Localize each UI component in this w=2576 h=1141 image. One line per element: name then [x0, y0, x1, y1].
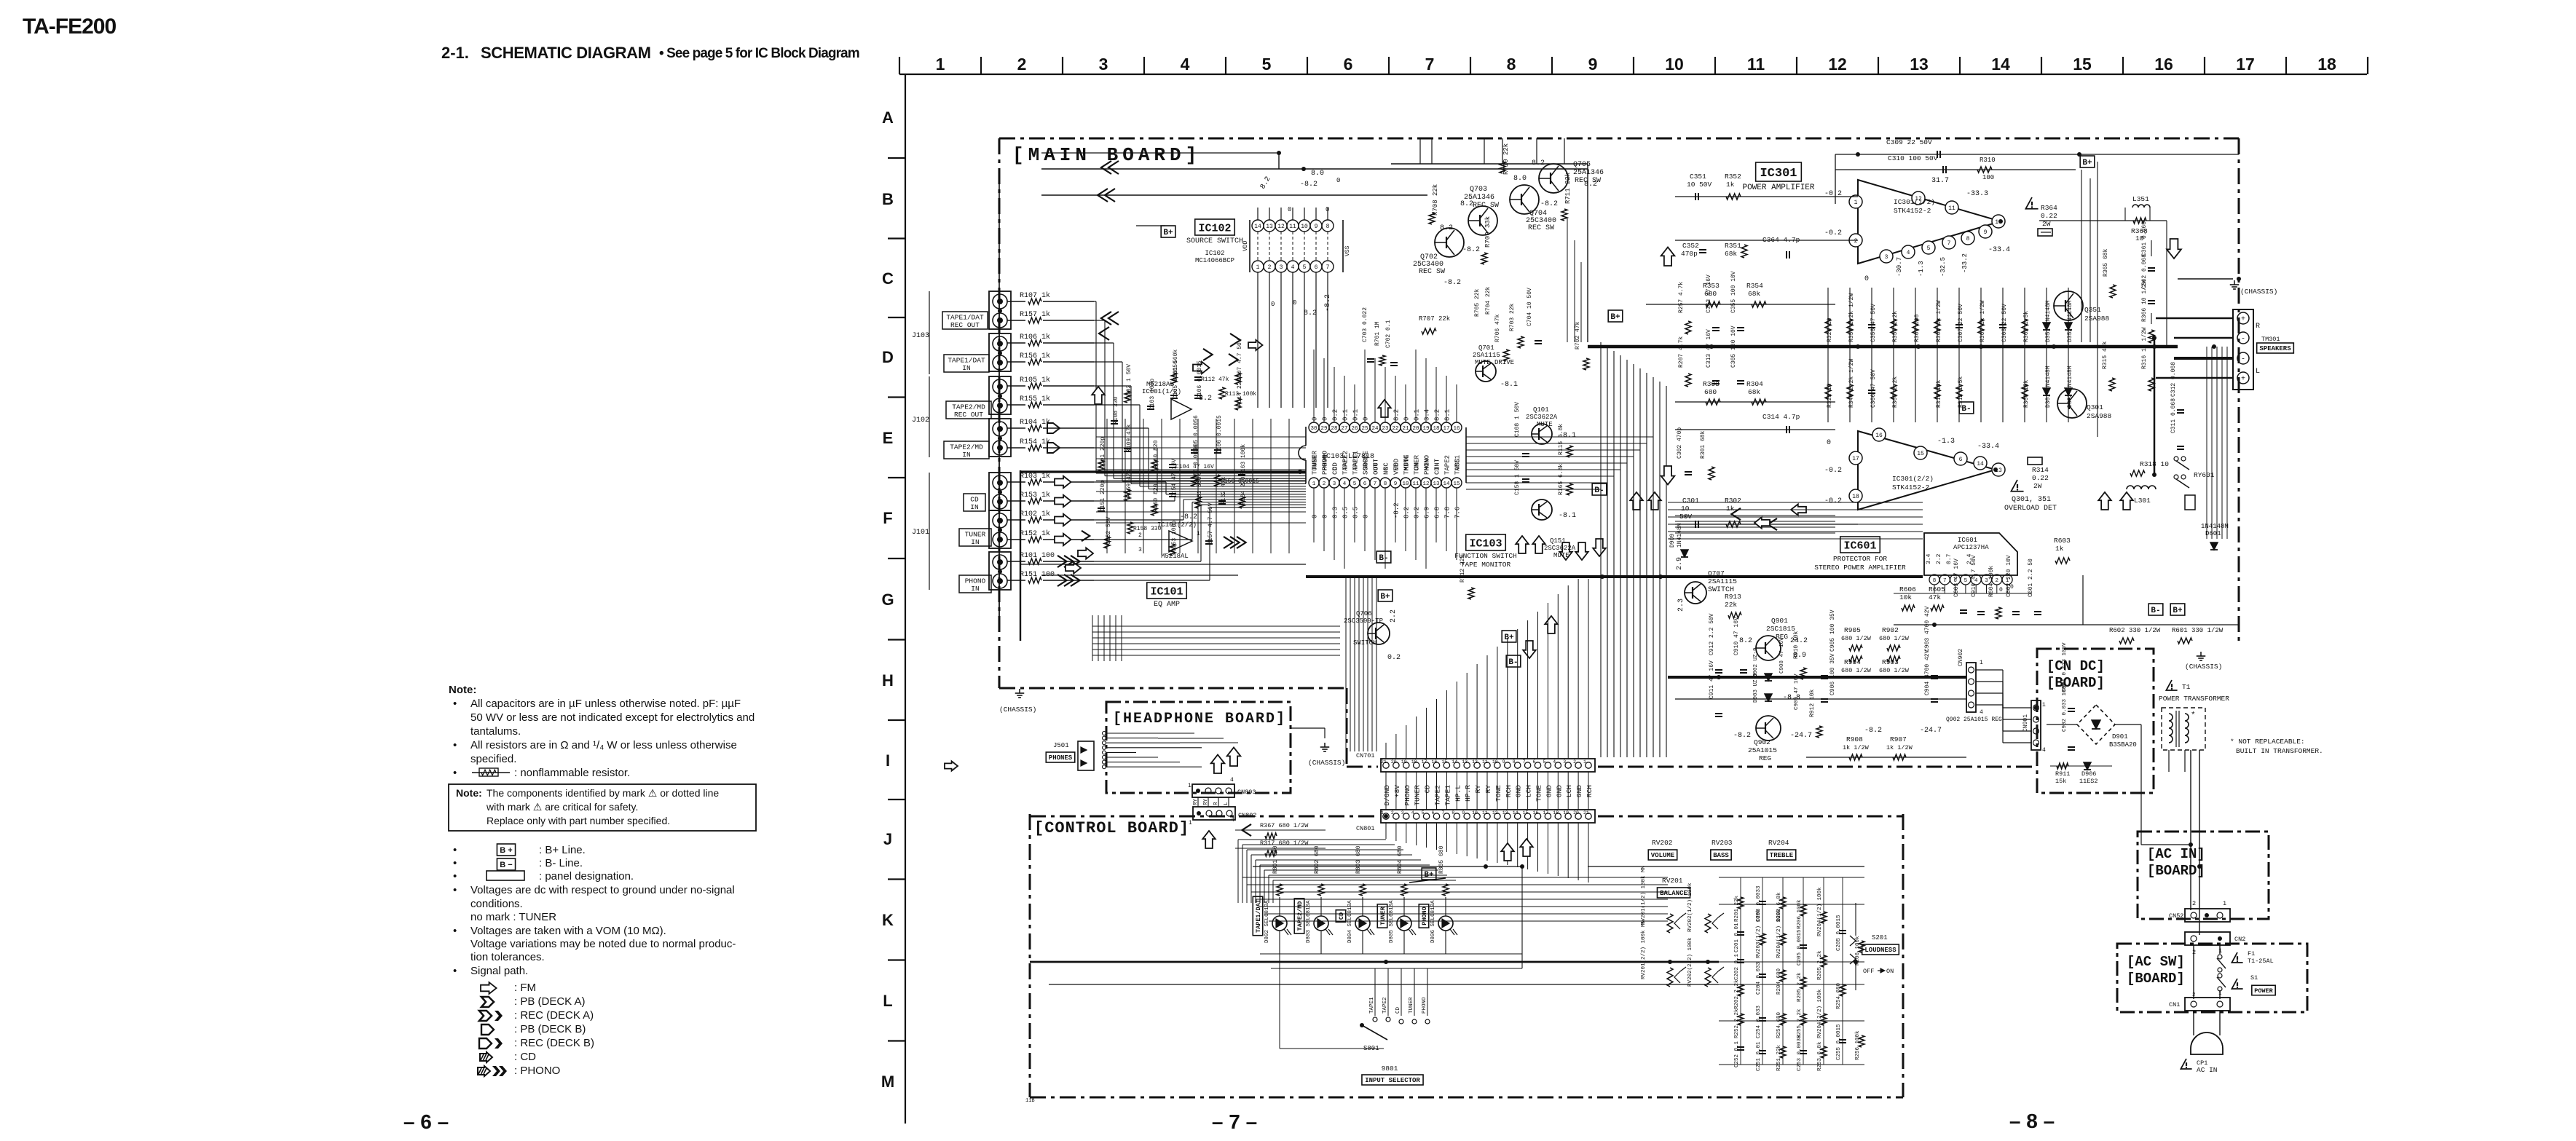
svg-text:VDD: VDD	[1242, 240, 1249, 251]
svg-text:: PB (DECK B): : PB (DECK B)	[514, 1023, 586, 1035]
svg-text:10: 10	[1301, 224, 1308, 230]
svg-text:R711 22k: R711 22k	[1564, 173, 1572, 204]
svg-text:15k: 15k	[2055, 778, 2066, 785]
svg-text:CD: CD	[1338, 912, 1345, 920]
svg-text:PHONO: PHONO	[1421, 907, 1428, 925]
svg-text:C305 100 10V: C305 100 10V	[1730, 325, 1737, 368]
svg-text:9: 9	[1588, 55, 1598, 74]
svg-text:CD: CD	[1332, 467, 1339, 475]
svg-text:TAPE2/MD: TAPE2/MD	[950, 443, 983, 451]
svg-text:no mark : TUNER: no mark : TUNER	[470, 911, 556, 923]
svg-text:RY: RY	[1474, 785, 1482, 794]
svg-text:TAPE1/DAT: TAPE1/DAT	[946, 314, 984, 322]
svg-text:19: 19	[1401, 759, 1407, 765]
svg-text:R165 6.8k: R165 6.8k	[1558, 464, 1564, 495]
svg-text:15: 15	[1917, 451, 1924, 457]
svg-text:R701 1M: R701 1M	[1374, 321, 1381, 346]
svg-text:0: 0	[1336, 177, 1340, 184]
svg-text:1: 1	[936, 55, 945, 74]
svg-text:18: 18	[2317, 55, 2336, 74]
svg-text:: CD: : CD	[514, 1051, 536, 1063]
svg-text:NC: NC	[1383, 467, 1390, 475]
svg-text:C252 0.1: C252 0.1	[1734, 1041, 1740, 1067]
svg-text:R154 1k: R154 1k	[1020, 438, 1050, 446]
svg-text:R108 330: R108 330	[1113, 396, 1119, 425]
svg-text:18: 18	[1411, 759, 1417, 765]
svg-text:R908: R908	[1846, 735, 1863, 743]
svg-text:B +: B +	[500, 846, 512, 855]
svg-text:•: •	[453, 739, 457, 751]
svg-text:STEREO POWER AMPLIFIER: STEREO POWER AMPLIFIER	[1814, 564, 1906, 572]
svg-text:31.7: 31.7	[1931, 177, 1949, 185]
svg-text:12: 12	[1472, 759, 1478, 765]
svg-text:CN701: CN701	[1356, 752, 1375, 759]
svg-text:2: 2	[1268, 264, 1272, 271]
svg-text:VEE: VEE	[1393, 463, 1401, 475]
svg-text:8.1: 8.1	[1444, 409, 1452, 421]
svg-text:12: 12	[1422, 481, 1429, 487]
svg-text:: B+ Line.: : B+ Line.	[539, 844, 586, 856]
svg-text:I: I	[886, 751, 890, 770]
svg-text:Voltages are dc with respect t: Voltages are dc with respect to ground u…	[470, 884, 735, 896]
svg-text:4: 4	[1980, 709, 1983, 716]
svg-text:C910 47 16V: C910 47 16V	[1733, 617, 1740, 655]
svg-text:: panel designation.: : panel designation.	[539, 870, 634, 883]
svg-text:16: 16	[1453, 426, 1460, 432]
svg-text:C158 1 50V: C158 1 50V	[1514, 460, 1521, 495]
svg-text:R302: R302	[1725, 497, 1741, 505]
svg-text:6: 6	[1315, 264, 1318, 271]
svg-text:Q902: Q902	[1754, 738, 1770, 746]
svg-text:8.2: 8.2	[1440, 224, 1453, 232]
svg-text:L: L	[2256, 368, 2260, 376]
svg-text:2: 2	[1854, 238, 1858, 245]
svg-text:with mark ⚠ are critical for s: with mark ⚠ are critical for safety.	[486, 801, 638, 813]
svg-text:C105 0.0056: C105 0.0056	[1173, 360, 1179, 399]
svg-text:R351: R351	[1725, 242, 1741, 250]
svg-text:-8.2: -8.2	[1540, 200, 1558, 208]
svg-text:RV204(1/2) 100k: RV204(1/2) 100k	[1817, 887, 1823, 936]
svg-text:Signal path.: Signal path.	[470, 965, 528, 977]
svg-text:21: 21	[1583, 810, 1589, 816]
svg-text:BUILT IN TRANSFORMER.: BUILT IN TRANSFORMER.	[2236, 747, 2323, 755]
svg-text:CN52: CN52	[2169, 912, 2183, 920]
svg-text:C103 100p: C103 100p	[1149, 379, 1156, 410]
svg-text:3: 3	[1099, 55, 1108, 74]
svg-text:R202 2.2k: R202 2.2k	[1734, 979, 1740, 1009]
svg-text:L351: L351	[2132, 195, 2149, 203]
svg-text:R157 1k: R157 1k	[1020, 310, 1050, 319]
svg-text:CN1: CN1	[2169, 1001, 2180, 1008]
svg-text:-8.2: -8.2	[1300, 181, 1317, 189]
svg-text:B+: B+	[1163, 229, 1173, 237]
svg-text:7.6: 7.6	[1454, 507, 1462, 518]
svg-text:B-: B-	[1379, 554, 1388, 563]
svg-text:2.3: 2.3	[1677, 599, 1685, 612]
svg-text:7: 7	[1326, 264, 1330, 271]
svg-text:C201 0.01: C201 0.01	[1734, 923, 1740, 952]
svg-text:CN902: CN902	[1958, 649, 1964, 666]
svg-text:68k: 68k	[1748, 388, 1760, 396]
svg-text:2.9: 2.9	[1676, 557, 1684, 570]
svg-text:0.7: 0.7	[1946, 553, 1953, 564]
svg-text:GND: GND	[1555, 785, 1563, 797]
svg-text:IC102: IC102	[1205, 250, 1224, 257]
svg-text:Note:: Note:	[449, 684, 476, 696]
svg-text:8: 8	[1452, 810, 1454, 816]
svg-text:B+: B+	[2082, 159, 2092, 167]
svg-text:2SA1115: 2SA1115	[1473, 352, 1500, 359]
svg-text:C310 100 50V: C310 100 50V	[1888, 154, 1938, 162]
svg-text:8.2: 8.2	[1304, 309, 1317, 317]
svg-text:-8.2: -8.2	[1443, 279, 1461, 287]
svg-text:D906: D906	[2081, 770, 2096, 778]
svg-text:R251 22k: R251 22k	[1776, 1044, 1782, 1071]
svg-text:STK4152-2: STK4152-2	[1892, 483, 1930, 491]
svg-text:C602 220 10V: C602 220 10V	[2006, 555, 2012, 597]
svg-text:C904 4700 42V: C904 4700 42V	[1924, 650, 1931, 695]
svg-text:VOLUME: VOLUME	[1651, 852, 1675, 859]
svg-text:680 1/2W: 680 1/2W	[1841, 635, 1872, 642]
svg-text:R106 1k: R106 1k	[1020, 333, 1050, 341]
svg-text:0.5: 0.5	[1352, 507, 1360, 518]
svg-text:RV204(1/2) 100k: RV204(1/2) 100k	[1776, 909, 1782, 958]
svg-text:2: 2	[1138, 532, 1142, 539]
svg-text:R364: R364	[2041, 204, 2057, 212]
svg-text:14: 14	[1254, 224, 1261, 230]
svg-text:68k: 68k	[1725, 250, 1737, 258]
svg-text:9: 9	[1502, 759, 1505, 765]
svg-text:D903 UZ-9: D903 UZ-9	[1753, 673, 1759, 703]
svg-text:9: 9	[1315, 224, 1318, 230]
svg-text:2: 2	[1996, 578, 1999, 584]
svg-text:24: 24	[1371, 426, 1379, 432]
svg-text:17: 17	[1852, 456, 1859, 462]
svg-text:RCH: RCH	[1586, 785, 1594, 797]
svg-text:R305 2.2k: R305 2.2k	[1892, 376, 1899, 408]
svg-text:REC SW: REC SW	[1473, 202, 1499, 210]
svg-text:S1: S1	[2250, 974, 2258, 982]
svg-text:1: 1	[2042, 702, 2046, 708]
svg-text:7: 7	[1523, 759, 1526, 765]
svg-text:– 7 –: – 7 –	[1212, 1110, 1257, 1133]
svg-text:C311 0.068: C311 0.068	[2170, 398, 2177, 433]
svg-text:D: D	[882, 348, 894, 366]
svg-text:TAPE2: TAPE2	[1444, 455, 1452, 475]
svg-text:2: 2	[1573, 759, 1576, 765]
svg-text:: B- Line.: : B- Line.	[539, 857, 583, 869]
svg-text:5: 5	[1964, 578, 1968, 584]
svg-text:8.2: 8.2	[1434, 409, 1441, 421]
svg-text:50 WV or less are not indicate: 50 WV or less are not indicated except f…	[470, 711, 755, 724]
svg-text:K: K	[882, 911, 894, 929]
svg-text:1k 1/2W: 1k 1/2W	[1843, 744, 1870, 751]
svg-text:6: 6	[1432, 810, 1435, 816]
svg-text:IC103: IC103	[1469, 537, 1502, 550]
svg-text:D302 1N4148M: D302 1N4148M	[2067, 366, 2073, 408]
svg-text:1k: 1k	[2055, 545, 2064, 553]
svg-text:6: 6	[1344, 55, 1353, 74]
svg-text:IN: IN	[970, 503, 978, 511]
svg-text:15: 15	[2073, 55, 2092, 74]
svg-text:20: 20	[1412, 426, 1419, 432]
svg-text:R156 1k: R156 1k	[1020, 352, 1050, 360]
svg-text:B −: B −	[500, 861, 512, 869]
svg-text:IC601: IC601	[1843, 540, 1876, 552]
svg-text:16: 16	[1432, 759, 1438, 765]
svg-text:2.2: 2.2	[1936, 553, 1942, 564]
svg-text:R201 22k: R201 22k	[1734, 895, 1740, 922]
svg-text:J501: J501	[1053, 742, 1069, 749]
svg-text:IC102: IC102	[1198, 222, 1231, 234]
svg-text:B-: B-	[1594, 486, 1604, 495]
svg-text:8.0: 8.0	[1311, 170, 1324, 178]
svg-text:6: 6	[1533, 759, 1536, 765]
svg-text:TAPE2/MD: TAPE2/MD	[952, 403, 985, 411]
svg-text:D909: D909	[1669, 534, 1676, 548]
svg-text:C704 10 50V: C704 10 50V	[1527, 288, 1533, 326]
svg-text:R605: R605	[1929, 585, 1945, 593]
svg-text:27: 27	[1341, 426, 1347, 432]
svg-text:2: 2	[1391, 810, 1394, 816]
svg-text:R356 2.2k 1/2W: R356 2.2k 1/2W	[1848, 293, 1855, 342]
svg-text:R317 680 1/2W: R317 680 1/2W	[1260, 840, 1309, 847]
svg-text:18: 18	[1553, 810, 1559, 816]
svg-text:C151 220p: C151 220p	[1100, 481, 1106, 512]
svg-text:B: B	[882, 190, 894, 208]
svg-text:T1: T1	[2182, 683, 2191, 691]
svg-text:C911 47 16V: C911 47 16V	[1709, 660, 1715, 699]
svg-text:3: 3	[1333, 481, 1336, 487]
svg-text:2SA988: 2SA988	[2084, 315, 2110, 323]
svg-text:Q707: Q707	[1708, 569, 1725, 577]
svg-text:15: 15	[1453, 481, 1460, 487]
svg-text:6: 6	[1363, 481, 1367, 487]
svg-text:R103 1k: R103 1k	[1020, 472, 1050, 481]
svg-text:MUTE DRIVE: MUTE DRIVE	[1475, 359, 1514, 366]
svg-text:-33.4: -33.4	[1988, 246, 2010, 254]
svg-text:8: 8	[1326, 224, 1330, 230]
svg-text:R315 47k: R315 47k	[2102, 341, 2108, 369]
svg-text:C905 100 35V: C905 100 35V	[1829, 609, 1836, 652]
svg-text:C908 47 16V: C908 47 16V	[1779, 637, 1785, 674]
svg-text:[BOARD]: [BOARD]	[2047, 675, 2105, 691]
svg-text:R163 100k: R163 100k	[1240, 444, 1247, 475]
svg-text:C314 4.7p: C314 4.7p	[1762, 413, 1800, 421]
svg-text:•: •	[453, 884, 457, 896]
svg-text:R308 1k 1/2W: R308 1k 1/2W	[1936, 300, 1942, 342]
svg-text:0: 0	[1288, 206, 1291, 213]
svg-text:0: 0	[1312, 515, 1319, 518]
svg-text:13: 13	[1266, 224, 1273, 230]
svg-text:7: 7	[1374, 481, 1377, 487]
svg-text:3: 3	[1280, 264, 1283, 271]
svg-text:3: 3	[1138, 547, 1142, 553]
svg-text:R802 680: R802 680	[1314, 845, 1320, 874]
svg-text:R: R	[1213, 802, 1219, 805]
svg-text:4: 4	[1291, 264, 1295, 271]
svg-text:-8.2: -8.2	[1393, 502, 1401, 518]
svg-text:2.2: 2.2	[1390, 609, 1398, 623]
svg-text:1: 1	[1854, 200, 1858, 206]
svg-text:D/GND: D/GND	[1383, 785, 1391, 806]
svg-text:RV203(1/2) 100k: RV203(1/2) 100k	[1756, 909, 1762, 958]
svg-text:C312 0.068: C312 0.068	[2170, 362, 2177, 397]
svg-text:0.1: 0.1	[1414, 409, 1421, 421]
svg-text:-8.2: -8.2	[1733, 732, 1751, 740]
svg-text:PHONO: PHONO	[1403, 785, 1411, 806]
svg-text:0.2: 0.2	[1332, 409, 1339, 421]
svg-text:C355 100 10V: C355 100 10V	[1730, 271, 1737, 313]
svg-text:13: 13	[1910, 55, 1929, 74]
svg-text:4: 4	[2042, 747, 2046, 754]
svg-text:R707 22k: R707 22k	[1419, 315, 1450, 323]
svg-text:14: 14	[1443, 481, 1450, 487]
svg-text:-8.1: -8.1	[1559, 512, 1576, 520]
svg-text:C307 22 50V: C307 22 50V	[1958, 304, 1964, 342]
svg-text:+8V: +8V	[1393, 785, 1401, 797]
svg-text:9: 9	[1462, 810, 1465, 816]
svg-text:OFF: OFF	[1863, 968, 1874, 975]
svg-text:R252 2.2k: R252 2.2k	[1734, 1008, 1740, 1038]
svg-text:3: 3	[1885, 254, 1888, 261]
svg-text:68k: 68k	[1748, 290, 1760, 298]
svg-text:20: 20	[1573, 810, 1579, 816]
svg-text:TAPE1/DAT: TAPE1/DAT	[948, 357, 985, 365]
svg-text:TAPE1/DAT: TAPE1/DAT	[1255, 899, 1262, 933]
svg-text:7: 7	[1943, 578, 1947, 584]
svg-text:R352: R352	[1725, 173, 1741, 181]
svg-text:CN803: CN803	[1237, 789, 1256, 796]
svg-text:680: 680	[1704, 388, 1717, 396]
svg-text:R316 10 1/2W: R316 10 1/2W	[2141, 327, 2148, 369]
svg-text:R205 2.2k: R205 2.2k	[1797, 972, 1803, 1002]
svg-text:C356 47 50V: C356 47 50V	[1870, 304, 1877, 342]
svg-text:C308 22 50V: C308 22 50V	[2001, 304, 2008, 342]
svg-text:R708 22k: R708 22k	[1432, 184, 1439, 216]
svg-text:0: 0	[1293, 299, 1296, 307]
svg-text:-: -	[2241, 336, 2245, 344]
svg-text:14: 14	[1977, 461, 1984, 467]
svg-text:8.2: 8.2	[1739, 637, 1752, 645]
svg-text:6: 6	[1959, 457, 1963, 463]
svg-text:R112 47k: R112 47k	[1201, 376, 1229, 383]
svg-text:C361 0.068: C361 0.068	[2141, 221, 2148, 256]
svg-text:Q703: Q703	[1470, 186, 1487, 194]
svg-text:0: 0	[1363, 417, 1370, 421]
svg-text:Note:: Note:	[456, 787, 482, 799]
svg-text:Voltage variations may be note: Voltage variations may be noted due to n…	[470, 938, 736, 950]
svg-text:-8.2: -8.2	[1462, 246, 1480, 254]
svg-text:CD: CD	[1424, 785, 1432, 794]
svg-text:0.2: 0.2	[1387, 654, 1401, 662]
svg-text:47k: 47k	[1929, 593, 1941, 601]
svg-text:Q151: Q151	[1550, 537, 1566, 545]
svg-text:IN: IN	[962, 451, 970, 459]
svg-text:B+: B+	[1424, 871, 1434, 880]
svg-text:D902 UZ-9: D902 UZ-9	[1753, 647, 1759, 677]
svg-text:PHONO: PHONO	[1424, 455, 1431, 475]
svg-text:TA-FE200: TA-FE200	[23, 15, 116, 39]
svg-text:RY: RY	[1203, 798, 1209, 805]
svg-text:EQ AMP: EQ AMP	[1154, 601, 1180, 609]
svg-text:B+: B+	[1380, 593, 1390, 601]
svg-text:GND: GND	[1575, 785, 1583, 797]
svg-text:R257 4.7k: R257 4.7k	[1678, 282, 1685, 313]
svg-text:2SC3622A: 2SC3622A	[1544, 545, 1576, 552]
svg-text:R310: R310	[1980, 157, 1996, 164]
svg-text:C106 0.0015: C106 0.0015	[1197, 360, 1203, 399]
svg-text:MC14066BCP: MC14066BCP	[1195, 257, 1234, 264]
svg-text:G: G	[881, 591, 894, 609]
svg-text:CN2: CN2	[2234, 936, 2245, 943]
svg-text:IN: IN	[971, 585, 979, 593]
svg-text:R253 6.8k: R253 6.8k	[1817, 1041, 1823, 1071]
svg-text:[BOARD]: [BOARD]	[2147, 863, 2205, 879]
svg-text:17: 17	[1443, 426, 1449, 432]
svg-text:R346 2.2k 1/2W: R346 2.2k 1/2W	[1848, 359, 1855, 408]
svg-text:R159 47k: R159 47k	[1126, 469, 1133, 497]
svg-text:R803 680: R803 680	[1355, 845, 1362, 874]
svg-text:-8.2: -8.2	[1864, 727, 1882, 735]
svg-text:0: 0	[1999, 587, 2003, 593]
svg-text:AC IN: AC IN	[2197, 1066, 2218, 1074]
svg-text:GND: GND	[1545, 785, 1553, 797]
svg-text:5: 5	[1927, 245, 1931, 252]
svg-text:B+: B+	[1504, 633, 1514, 642]
svg-text:•: •	[453, 767, 457, 779]
svg-text:R105 1k: R105 1k	[1020, 376, 1050, 384]
svg-text:0.3: 0.3	[1332, 507, 1339, 518]
svg-text:SORCE: SORCE	[1363, 455, 1370, 475]
svg-text:R702 47k: R702 47k	[1575, 321, 1581, 350]
svg-text:1N4148M: 1N4148M	[2201, 523, 2229, 530]
svg-text:11: 11	[1482, 810, 1488, 816]
svg-text:0: 0	[1827, 439, 1831, 447]
svg-text:[CN DC]: [CN DC]	[2047, 658, 2105, 674]
svg-text:2: 2	[2192, 992, 2196, 998]
svg-text:C302 470p: C302 470p	[1677, 427, 1683, 459]
svg-text:C253 0.0033: C253 0.0033	[1797, 1035, 1803, 1071]
svg-text:TAPE2: TAPE2	[1382, 997, 1388, 1014]
svg-text:tion tolerances.: tion tolerances.	[470, 951, 545, 963]
svg-text:23: 23	[1382, 426, 1389, 432]
svg-text:R706 47k: R706 47k	[1494, 314, 1501, 342]
svg-text:Q301: Q301	[2087, 403, 2103, 411]
svg-text:R805 680: R805 680	[1438, 845, 1445, 874]
svg-text:22: 22	[1392, 426, 1398, 432]
svg-text:CD: CD	[1434, 467, 1441, 475]
svg-text:2: 2	[2192, 900, 2196, 907]
svg-text:TAPE1: TAPE1	[1352, 455, 1360, 475]
svg-text:4: 4	[1343, 481, 1347, 487]
svg-text:0.1: 0.1	[1342, 409, 1350, 421]
svg-text:TMING: TMING	[1403, 455, 1411, 475]
svg-text:R304: R304	[1746, 380, 1763, 388]
svg-text:TAPE1: TAPE1	[1369, 997, 1375, 1014]
svg-text:E: E	[883, 429, 894, 447]
svg-text:4: 4	[1231, 817, 1234, 824]
svg-text:1: 1	[1312, 481, 1316, 487]
svg-text:4: 4	[1907, 250, 1910, 256]
svg-text:PHONO: PHONO	[1322, 455, 1329, 475]
svg-text:TUNER: TUNER	[1409, 997, 1414, 1014]
svg-text:Q701: Q701	[1478, 344, 1494, 352]
svg-text:R101 100: R101 100	[1020, 552, 1055, 560]
svg-text:1k: 1k	[1726, 181, 1735, 189]
svg-text:R206 100k: R206 100k	[1797, 899, 1803, 929]
svg-text:R705 22k: R705 22k	[1474, 288, 1481, 317]
